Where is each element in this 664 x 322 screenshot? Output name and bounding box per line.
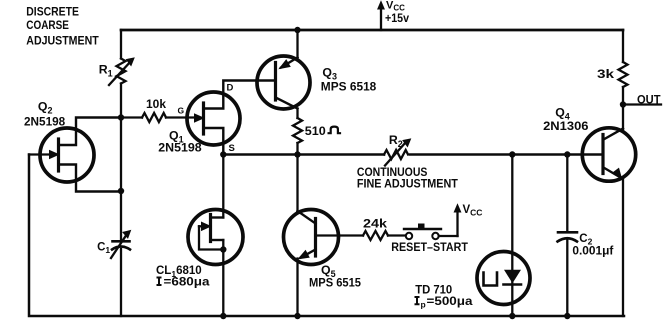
wire C2 branch top: [566, 155, 568, 233]
svg-text:=680μa: =680μa: [164, 276, 211, 288]
transistor Q3 (PNP MPS 6518): [257, 56, 310, 109]
svg-text:R2: R2: [389, 133, 403, 149]
resistor R2 (variable fine adjust): [384, 150, 408, 159]
wire Q4 emitter to bottom rail: [622, 180, 624, 317]
label I=680ua: [157, 278, 162, 286]
current limiter CL1 6810: [188, 210, 243, 265]
svg-text:RESET–START: RESET–START: [391, 242, 468, 254]
wire top rail: [121, 29, 623, 32]
svg-text:CONTINUOUS: CONTINUOUS: [357, 167, 428, 179]
wire Q5 emitter to bottom rail: [296, 259, 298, 317]
resistor 10k: [121, 116, 142, 118]
svg-text:R1: R1: [99, 63, 113, 79]
svg-text:2N5198: 2N5198: [24, 115, 65, 129]
wire 24k to switch: [388, 234, 406, 236]
svg-text:COARSE: COARSE: [26, 18, 69, 32]
wire C2 branch bottom: [566, 241, 568, 317]
wire R1 top stem: [120, 30, 122, 59]
svg-text:3k: 3k: [597, 67, 614, 81]
node Q1 source junction: [220, 151, 226, 157]
svg-text:2N1306: 2N1306: [543, 119, 589, 133]
node rail/TD junction: [509, 151, 515, 157]
node rail/C2 junction: [564, 151, 570, 157]
svg-text:S: S: [229, 143, 235, 154]
svg-text:FINE ADJUSTMENT: FINE ADJUSTMENT: [357, 179, 458, 191]
label DISCRETE COARSE ADJUSTMENT: [26, 4, 99, 47]
svg-text:24k: 24k: [363, 219, 388, 231]
svg-text:DISCRETE: DISCRETE: [26, 4, 79, 18]
wire bottom rail: [29, 155, 624, 317]
svg-text:Q2: Q2: [38, 100, 53, 116]
transistor Q2 (JFET 2N5198): [40, 128, 94, 182]
svg-text:VCC: VCC: [463, 204, 483, 218]
transistor Q1 (JFET 2N5198): [187, 92, 240, 145]
svg-text:10k: 10k: [146, 99, 167, 111]
power Vcc arrow top: [378, 2, 384, 10]
label Ip=500ua: [415, 297, 420, 304]
svg-text:p: p: [421, 300, 426, 310]
node 510/rail junction: [294, 151, 300, 157]
svg-text:OUT: OUT: [637, 93, 661, 107]
wire C1 to bottom rail: [120, 249, 122, 316]
wire Vcc stub: [380, 8, 382, 30]
switch RESET-START: [406, 233, 412, 239]
wire CL1 to bottom rail: [222, 240, 224, 316]
resistor 24k: [363, 231, 388, 240]
wire Q3 emitter to rail: [296, 30, 298, 58]
svg-text:D: D: [227, 83, 234, 94]
wire R1 bottom stem: [120, 84, 122, 118]
wire switch Vcc stub: [456, 211, 458, 236]
svg-text:=500μa: =500μa: [427, 296, 474, 308]
transistor Q5 (NPN MPS 6515): [284, 210, 339, 265]
wire middle rail left: [223, 153, 384, 156]
svg-text:C1: C1: [97, 242, 110, 256]
svg-text:0.001μf: 0.001μf: [572, 245, 613, 257]
svg-text:510: 510: [305, 126, 326, 138]
wire Q3 collector to 510: [296, 109, 298, 119]
capacitor C1 (variable): [113, 240, 130, 243]
svg-text:MPS 6515: MPS 6515: [309, 278, 362, 290]
svg-text:+15v: +15v: [385, 11, 409, 25]
capacitor C2: [558, 231, 577, 234]
node OUT junction: [620, 101, 626, 107]
wire TD branch: [511, 155, 513, 317]
wire bus mid: [120, 118, 122, 192]
transistor Q4 (NPN 2N1306): [582, 128, 635, 181]
wire OUT: [623, 103, 661, 105]
node bus junction (Q2 source / C1): [118, 188, 124, 194]
svg-text:2N5198: 2N5198: [158, 141, 202, 155]
resistor 3k: [619, 62, 628, 87]
svg-text:TD 710: TD 710: [415, 285, 452, 297]
node bus junction (R1 / Q2 drain / 10k): [118, 114, 124, 120]
wire rail to Q5 collector: [296, 155, 298, 212]
svg-text:G: G: [178, 106, 185, 116]
wire middle rail right: [410, 153, 601, 156]
svg-text:MPS 6518: MPS 6518: [321, 79, 377, 93]
svg-text:ADJUSTMENT: ADJUSTMENT: [26, 33, 99, 47]
resistor R1 (variable): [117, 59, 126, 84]
power Vcc arrow (switch): [454, 205, 460, 213]
wire bus to C1: [120, 191, 122, 240]
tunnel diode TD710: [477, 252, 530, 305]
wire Q1 source to CL1: [222, 155, 224, 218]
resistor 510 ohm: [293, 118, 302, 143]
wire right branch top: [622, 30, 624, 62]
